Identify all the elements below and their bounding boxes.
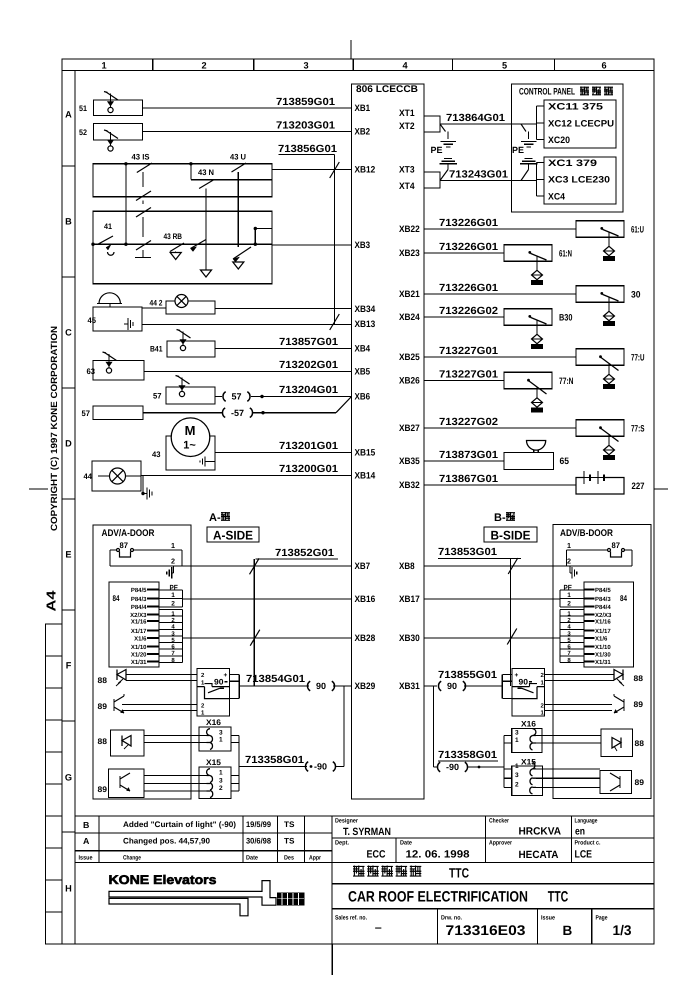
svg-text:X2/X3: X2/X3 xyxy=(595,612,612,619)
svg-text:88: 88 xyxy=(98,676,108,685)
transistor 89 B upper symbol xyxy=(623,699,625,711)
svg-text:713227G02: 713227G02 xyxy=(439,417,498,428)
svg-text:-90: -90 xyxy=(314,762,327,772)
switch 41 xyxy=(91,243,94,246)
relay 90 outer box B xyxy=(512,669,545,717)
svg-text:90: 90 xyxy=(519,678,529,687)
wire XB16 xyxy=(183,598,352,600)
svg-text:45: 45 xyxy=(88,316,97,325)
svg-text:2: 2 xyxy=(567,601,571,608)
wire y244 across xyxy=(126,243,272,245)
contact 43 N blade xyxy=(199,180,214,189)
svg-text:Changed pos. 44,57,90: Changed pos. 44,57,90 xyxy=(123,837,211,846)
motor 43 circle xyxy=(171,418,210,457)
optocoupler 88 B lower box xyxy=(601,729,633,757)
svg-text:57: 57 xyxy=(153,392,162,401)
svg-text:F: F xyxy=(66,660,72,670)
connector block 84 B box xyxy=(584,582,634,667)
wire 57b to connector xyxy=(143,412,222,414)
connector X16 B box xyxy=(512,729,542,753)
connector 57 xyxy=(223,392,226,402)
vertical 43N chain x206 xyxy=(205,189,207,271)
svg-text:B30: B30 xyxy=(559,312,573,322)
battery 227 box xyxy=(576,478,624,495)
svg-text:TTC: TTC xyxy=(548,889,569,906)
svg-text:Drw. no.: Drw. no. xyxy=(441,915,462,922)
svg-text:X1/30: X1/30 xyxy=(595,651,611,658)
switch box 61N xyxy=(504,245,552,261)
wire XB17 xyxy=(424,598,560,600)
twisted pair slash XB8 xyxy=(508,558,518,574)
earth inside motor box xyxy=(206,461,215,463)
svg-text:B-SIDE: B-SIDE xyxy=(491,529,531,543)
svg-text:713358G01: 713358G01 xyxy=(438,750,497,761)
wire 713227G02 xyxy=(424,427,576,429)
wire -90 A left segment xyxy=(239,766,307,768)
X15 bracket stubs A xyxy=(231,775,239,777)
svg-text:TS: TS xyxy=(284,837,295,846)
svg-text:Issue: Issue xyxy=(541,915,555,922)
shaft plug 30 xyxy=(604,311,615,320)
connector X16 A box xyxy=(199,727,231,751)
switch 57b box xyxy=(93,406,143,420)
wire -57 xyxy=(253,412,336,414)
left centering tick xyxy=(29,488,48,490)
svg-text:43 N: 43 N xyxy=(198,168,214,177)
svg-text:713864G01: 713864G01 xyxy=(446,113,505,124)
transistor 89 B lower symbol xyxy=(619,776,621,788)
svg-text:KONE Elevators: KONE Elevators xyxy=(109,873,217,887)
connector -57 xyxy=(222,408,225,418)
svg-text:XB22: XB22 xyxy=(399,224,420,234)
connector X15 B box xyxy=(512,766,543,796)
svg-text:X1/6: X1/6 xyxy=(595,635,608,642)
optocoupler 88 B upper symbol xyxy=(614,670,623,681)
svg-text:E: E xyxy=(65,549,71,559)
svg-text:X1/16: X1/16 xyxy=(131,618,147,625)
svg-text:A: A xyxy=(83,836,90,846)
svg-text:XT4: XT4 xyxy=(399,181,415,191)
svg-text:5: 5 xyxy=(502,61,507,71)
svg-text:43: 43 xyxy=(152,450,161,459)
svg-text:713358G01: 713358G01 xyxy=(245,755,304,766)
terminal cells A-side group2 xyxy=(182,609,184,662)
svg-text:X1/17: X1/17 xyxy=(131,628,147,635)
wire XB31 left segment xyxy=(424,685,437,687)
twisted pair slash XB30 xyxy=(507,629,517,645)
twisted pair slash XB13 xyxy=(330,314,340,330)
svg-text:4: 4 xyxy=(402,61,408,71)
svg-text:713856G01: 713856G01 xyxy=(278,144,337,155)
svg-text:713243G01: 713243G01 xyxy=(449,170,508,181)
svg-text:1: 1 xyxy=(567,592,571,599)
svg-text:XB3: XB3 xyxy=(355,240,371,250)
wire 45 to XB13 xyxy=(142,324,352,326)
svg-text:+: + xyxy=(515,672,519,679)
svg-text:30: 30 xyxy=(631,289,641,299)
svg-text:77:U: 77:U xyxy=(631,352,645,362)
svg-text:41: 41 xyxy=(104,222,112,231)
svg-text:43 U: 43 U xyxy=(230,153,246,162)
svg-text:713204G01: 713204G01 xyxy=(279,385,338,396)
svg-text:XB26: XB26 xyxy=(399,376,420,386)
connector 90 A-side xyxy=(307,681,310,691)
wires relay to 88 B xyxy=(545,674,615,676)
svg-text:713854G01: 713854G01 xyxy=(246,674,305,685)
svg-text:227: 227 xyxy=(632,481,645,491)
svg-text:P84/4: P84/4 xyxy=(595,604,611,611)
svg-text:A: A xyxy=(65,109,72,119)
svg-text:ADV/A-DOOR: ADV/A-DOOR xyxy=(102,528,155,539)
svg-text:Sales ref. no.: Sales ref. no. xyxy=(335,915,367,922)
switch B41 box xyxy=(167,341,215,357)
svg-text:57: 57 xyxy=(231,392,241,402)
switch 63 contact xyxy=(103,352,107,353)
svg-text:87: 87 xyxy=(612,541,621,550)
connector -90 B-side xyxy=(437,762,440,772)
svg-text:B41: B41 xyxy=(150,345,163,354)
svg-text:19/5/99: 19/5/99 xyxy=(246,820,272,829)
relay 90 contact B xyxy=(522,688,534,693)
svg-text:B: B xyxy=(83,820,89,830)
switch box 77S xyxy=(576,420,624,437)
twisted pair slash XB7 xyxy=(250,558,260,574)
switch 57 box xyxy=(166,387,215,404)
svg-text:XB5: XB5 xyxy=(355,367,371,377)
node dot x255 y244 xyxy=(254,243,257,246)
optocoupler 88 B lower symbol xyxy=(612,738,621,749)
svg-text:89: 89 xyxy=(98,785,108,794)
optocoupler 88 lower symbol xyxy=(122,736,131,747)
X16 A contacts xyxy=(207,729,213,743)
shaft plug 77S xyxy=(604,445,615,454)
svg-text:57: 57 xyxy=(82,409,91,418)
svg-text:XC20: XC20 xyxy=(548,135,570,145)
svg-text:P84/3: P84/3 xyxy=(131,596,147,603)
wire -90 B left segment xyxy=(434,766,439,768)
wire 51 to XB1 xyxy=(143,107,352,109)
svg-text:X1/31: X1/31 xyxy=(595,659,611,666)
svg-text:806 LCECCB: 806 LCECCB xyxy=(356,84,418,95)
A-SIDE box label xyxy=(207,527,259,542)
svg-text:M: M xyxy=(185,423,196,438)
svg-text:X1/31: X1/31 xyxy=(131,659,147,666)
buzzer 45 box xyxy=(93,307,142,331)
wire 713227G01 xyxy=(424,356,576,358)
svg-text:B: B xyxy=(563,923,573,938)
lamp 44 earth xyxy=(142,476,144,494)
svg-text:XB24: XB24 xyxy=(399,312,421,322)
wire 713226G01 xyxy=(424,252,504,254)
optocoupler 88 lower box xyxy=(111,730,145,756)
svg-text:XB4: XB4 xyxy=(355,344,371,354)
svg-text:44: 44 xyxy=(84,472,93,481)
relay 90 bracket B xyxy=(502,674,512,676)
svg-text:XB16: XB16 xyxy=(355,594,376,604)
lamp 44 bulb xyxy=(98,475,109,477)
relay 90 bracket A xyxy=(230,674,240,676)
contact box 43 lower xyxy=(93,211,272,284)
svg-text:713201G01: 713201G01 xyxy=(279,441,338,452)
svg-text:2: 2 xyxy=(515,781,519,788)
svg-text:90: 90 xyxy=(447,681,457,691)
bracket vertical B xyxy=(503,736,505,788)
earth inside 45 box xyxy=(124,323,128,325)
terminal cells B-side group1 xyxy=(559,590,561,607)
svg-text:63: 63 xyxy=(87,367,96,376)
wires 88 B to X16 xyxy=(536,735,601,737)
svg-text:77:N: 77:N xyxy=(559,376,574,386)
svg-text:X1/16: X1/16 xyxy=(595,618,611,625)
svg-text:HRCKVA: HRCKVA xyxy=(519,826,562,838)
svg-text:XB23: XB23 xyxy=(399,248,420,258)
wire XB29 left segment xyxy=(239,685,309,687)
svg-text:713855G01: 713855G01 xyxy=(438,670,497,681)
svg-text:LCE: LCE xyxy=(575,849,593,861)
svg-text:713227G01: 713227G01 xyxy=(439,346,498,357)
label underline 713358G01 B xyxy=(438,760,498,762)
buzzer 45 bell xyxy=(99,293,120,304)
svg-text:3: 3 xyxy=(515,730,519,737)
connector X15 A box xyxy=(199,767,231,799)
svg-text:XB34: XB34 xyxy=(355,304,377,314)
shaft plug 77U xyxy=(604,374,615,383)
ground triangle x238 xyxy=(233,262,244,269)
wire to XB34 xyxy=(215,308,352,310)
terminal cells B-side group2 xyxy=(559,609,561,662)
svg-text:88: 88 xyxy=(634,674,644,683)
svg-text:3: 3 xyxy=(515,772,519,779)
svg-text:Checker: Checker xyxy=(489,818,509,825)
svg-text:X2/X3: X2/X3 xyxy=(130,612,147,619)
svg-text:1: 1 xyxy=(515,763,519,770)
svg-text:H: H xyxy=(65,883,72,893)
wire 44 to XB14 xyxy=(141,475,352,477)
label underline 713852G01 xyxy=(256,558,339,560)
wire 63 to XB5 xyxy=(144,371,352,373)
svg-text:2: 2 xyxy=(171,557,175,566)
wire XB29 right segment xyxy=(333,685,352,687)
svg-text:3: 3 xyxy=(219,778,223,785)
svg-text:P84/5: P84/5 xyxy=(131,587,147,594)
svg-text:Designer: Designer xyxy=(335,818,359,825)
wire -90 B right segment xyxy=(467,766,504,768)
svg-text:XB2: XB2 xyxy=(355,127,371,137)
svg-text:1: 1 xyxy=(101,61,106,71)
svg-text:88: 88 xyxy=(98,737,108,746)
wires 88 to relay xyxy=(126,674,197,676)
svg-text:1~: 1~ xyxy=(183,440,196,452)
right centering tick xyxy=(654,488,668,490)
svg-text:2: 2 xyxy=(171,601,175,608)
wire B41 to XB4 xyxy=(215,348,352,350)
X16 B contacts xyxy=(530,729,536,743)
svg-text:61:U: 61:U xyxy=(631,224,644,234)
svg-text:XB7: XB7 xyxy=(355,561,371,571)
PE rise left pair xyxy=(444,158,452,160)
svg-text:Change: Change xyxy=(123,855,141,862)
svg-text:T. SYRMAN: T. SYRMAN xyxy=(343,826,391,838)
svg-text:6: 6 xyxy=(601,61,606,71)
svg-text:90: 90 xyxy=(316,681,326,691)
svg-text:XC3 LCE230: XC3 LCE230 xyxy=(548,175,610,185)
svg-text:X1/6: X1/6 xyxy=(134,635,147,642)
node dot top edge x191 xyxy=(189,162,192,165)
XC lower bracket xyxy=(533,180,537,182)
svg-text:-57: -57 xyxy=(231,408,244,418)
contact 43 U blade xyxy=(232,163,247,172)
svg-text:XB29: XB29 xyxy=(355,681,376,691)
vertical 43U chain x238 xyxy=(237,172,239,247)
lamp 44 2 bulb xyxy=(175,295,188,308)
X15 B contacts xyxy=(530,762,536,776)
X15 bracket stubs B xyxy=(504,768,512,770)
wire -57 diagonal to XB6 xyxy=(336,397,352,413)
connector -90 A-side xyxy=(305,762,308,772)
KONE logo graphic xyxy=(109,881,276,906)
svg-text:XC12 LCECPU: XC12 LCECPU xyxy=(548,119,614,129)
svg-text:PE: PE xyxy=(431,145,443,155)
connector 90 B-side xyxy=(438,681,441,691)
photocell 65 dome xyxy=(527,441,546,451)
svg-text:en: en xyxy=(575,826,585,838)
row label strip xyxy=(74,71,76,945)
column header strip xyxy=(62,70,654,72)
svg-text:84: 84 xyxy=(113,593,120,603)
wire 713243G01 xyxy=(440,180,533,182)
svg-text:1: 1 xyxy=(567,541,571,550)
bracket vertical A xyxy=(238,736,240,792)
wire XB8 xyxy=(424,565,567,567)
svg-text:3: 3 xyxy=(219,730,223,737)
wire 52 to XB2 xyxy=(143,131,352,133)
svg-text:713853G01: 713853G01 xyxy=(438,547,497,558)
svg-text:XB12: XB12 xyxy=(355,165,376,175)
switch box 30 xyxy=(576,286,624,303)
svg-text:Date: Date xyxy=(246,855,258,862)
switch box 61U xyxy=(576,221,624,238)
svg-text:XB8: XB8 xyxy=(399,561,415,571)
relay 90 contact A xyxy=(208,688,220,693)
svg-text:51: 51 xyxy=(79,104,87,113)
svg-text:B-: B- xyxy=(494,512,506,524)
svg-text:P84/4: P84/4 xyxy=(131,604,147,611)
svg-text:XB31: XB31 xyxy=(399,681,420,691)
svg-text:61:N: 61:N xyxy=(559,248,572,258)
svg-text:713227G01: 713227G01 xyxy=(439,369,498,380)
svg-text:65: 65 xyxy=(560,456,570,466)
svg-text:Dept.: Dept. xyxy=(335,840,349,847)
XC upper box xyxy=(544,100,616,148)
svg-text:+: + xyxy=(224,672,228,679)
node dot -57 wire xyxy=(261,411,264,414)
svg-text:A4: A4 xyxy=(44,590,59,612)
door unit box ADV/B-DOOR xyxy=(553,525,651,799)
wires relay to 89 B xyxy=(545,704,613,706)
svg-text:43 RB: 43 RB xyxy=(164,232,183,241)
contact right arrow xyxy=(233,247,251,259)
svg-text:88: 88 xyxy=(635,739,645,748)
wire 713226G02 xyxy=(424,316,504,318)
svg-text:ADV/B-DOOR: ADV/B-DOOR xyxy=(560,528,613,539)
chain ground bar xyxy=(135,257,151,259)
switch 52 contact xyxy=(104,130,108,131)
svg-text:A-: A- xyxy=(209,512,221,524)
wire XB3 from 43 box xyxy=(272,244,352,246)
svg-text:713226G01: 713226G01 xyxy=(439,218,498,229)
fold mark strip xyxy=(46,624,63,944)
svg-text:XB25: XB25 xyxy=(399,352,420,362)
PE rise centre pair xyxy=(525,158,533,160)
XT3 XT4 connector box xyxy=(424,172,440,188)
svg-text:713316E03: 713316E03 xyxy=(446,922,526,938)
motor 43 box xyxy=(166,436,215,470)
switch box 77U xyxy=(576,349,624,366)
svg-text:TTC: TTC xyxy=(449,866,469,881)
bottom row verticals xyxy=(437,909,439,944)
X16 bracket stubs B xyxy=(504,735,512,737)
contact mid arrow xyxy=(191,240,207,249)
svg-text:Date: Date xyxy=(400,840,412,847)
svg-text:Appr: Appr xyxy=(309,855,321,862)
svg-text:–: – xyxy=(375,922,382,934)
svg-text:XB28: XB28 xyxy=(355,633,376,643)
control panel box xyxy=(512,84,624,212)
wire XB35 xyxy=(424,460,504,462)
switch box 77N xyxy=(504,372,552,389)
door unit box ADV/A-DOOR xyxy=(93,525,191,799)
svg-text:CONTROL PANEL: CONTROL PANEL xyxy=(519,86,575,97)
switch box B30 xyxy=(504,309,552,326)
lamp 44 box xyxy=(92,461,141,491)
svg-text:X1/20: X1/20 xyxy=(131,651,147,658)
B-SIDE box label xyxy=(484,527,537,542)
controller box 806 LCECCB xyxy=(352,84,425,799)
svg-text:89: 89 xyxy=(635,778,645,787)
wire y228 stub xyxy=(255,228,272,230)
svg-text:84: 84 xyxy=(620,593,627,603)
PE drop centre pair xyxy=(521,124,526,132)
door contact 87 B xyxy=(608,549,611,552)
svg-text:30/6/98: 30/6/98 xyxy=(246,837,272,846)
ground triangle 43RB xyxy=(175,252,177,253)
twisted pair slash XB28 xyxy=(250,630,260,646)
svg-text:X16: X16 xyxy=(521,720,537,729)
transistor 89 upper symbol xyxy=(113,699,115,711)
svg-text:713226G01: 713226G01 xyxy=(439,283,498,294)
vertical x255 xyxy=(254,229,256,245)
svg-text:CAR ROOF ELECTRIFICATION: CAR ROOF ELECTRIFICATION xyxy=(348,889,528,906)
svg-text:XC11 375: XC11 375 xyxy=(548,102,603,112)
XT1 XT2 connector box xyxy=(424,116,440,132)
svg-text:XB13: XB13 xyxy=(355,319,376,329)
svg-text:XB32: XB32 xyxy=(399,480,420,490)
svg-text:P84/5: P84/5 xyxy=(595,587,611,594)
svg-text:X1/10: X1/10 xyxy=(131,644,147,651)
switch B41 contact xyxy=(177,330,181,331)
bottom centering tick xyxy=(331,944,333,975)
svg-text:COPYRIGHT (C) 1997 KONE CORPOR: COPYRIGHT (C) 1997 KONE CORPORATION xyxy=(49,326,59,531)
riser x126 xyxy=(125,164,127,244)
wire XB7 xyxy=(182,565,352,567)
wire -90 A right segment xyxy=(335,766,344,768)
svg-text:X16: X16 xyxy=(206,718,222,727)
wire 41 common xyxy=(98,243,126,245)
door 87 B loop xyxy=(567,549,608,551)
svg-text:Added "Curtain of light" (-90): Added "Curtain of light" (-90) xyxy=(123,820,236,829)
cable bundle line B-side xyxy=(510,559,512,687)
wire XB28 xyxy=(183,637,352,639)
